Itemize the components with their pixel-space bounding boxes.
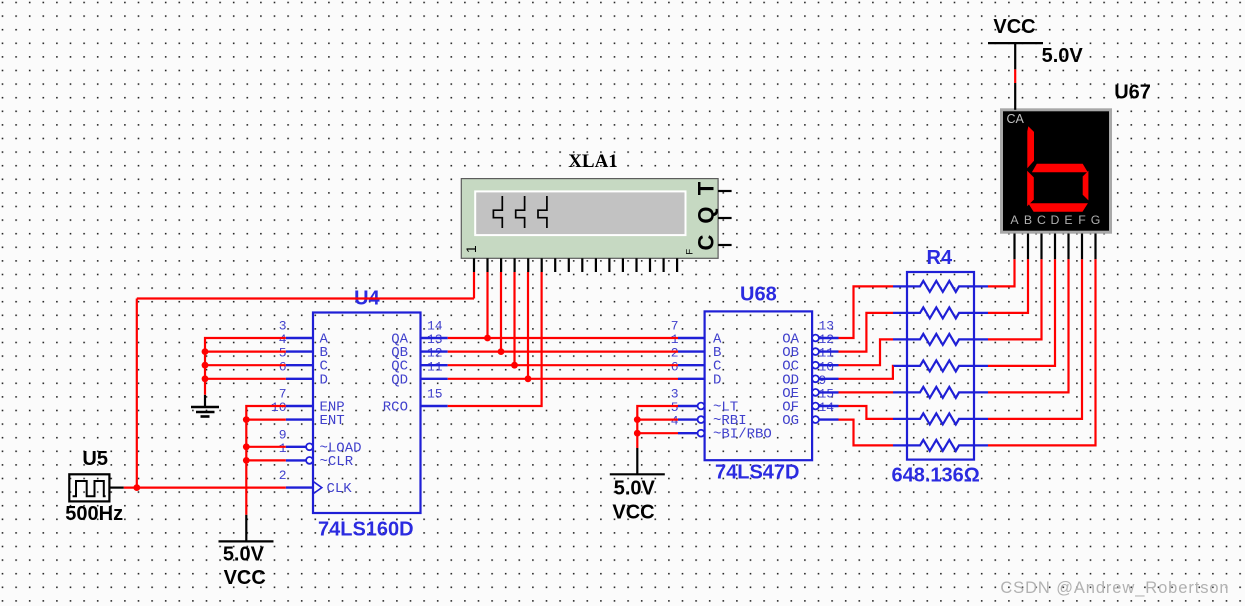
svg-text:1: 1 <box>463 245 479 253</box>
XLA1 bottom pin 11 <box>608 258 610 272</box>
XLA1 right pin T <box>718 190 732 192</box>
wire R4-3 to display C <box>988 259 1042 339</box>
XLA1 clock-qualifier letter T <box>694 181 719 195</box>
VCC 5.0V value (U68) <box>614 477 656 499</box>
wire U68 OA to R4-1 <box>839 286 894 338</box>
XLA1 pin F marker <box>685 249 696 255</box>
svg-text:~BI/RBO: ~BI/RBO <box>713 427 772 443</box>
U67 pin G <box>1094 234 1096 260</box>
wire U4 ENT to VCC bus <box>246 419 285 421</box>
XLA1 waveform glyph 1 <box>493 196 502 228</box>
wire R4-2 to display B <box>988 259 1028 313</box>
XLA1 bottom pin 3 <box>500 258 502 272</box>
U68 pin number 12 <box>819 332 835 347</box>
svg-text:4: 4 <box>671 414 679 429</box>
wire VCC to U67 anode <box>1014 69 1016 83</box>
U4 pin name QB <box>391 345 408 361</box>
svg-text:C: C <box>694 234 719 250</box>
U68 value label 74LS47D <box>715 462 800 484</box>
U68 pin name ~BI/RBO <box>713 427 772 443</box>
U68 pin name A <box>713 332 722 348</box>
U4 pin number 4 <box>279 332 287 347</box>
svg-text:6: 6 <box>671 359 679 374</box>
XLA1 bottom pin 13 <box>635 258 637 272</box>
U4 pin stub ~LOAD <box>286 443 313 450</box>
U67 reference label <box>1114 81 1151 103</box>
U4 pin name QC <box>391 359 408 375</box>
U68 pin number 14 <box>819 400 835 415</box>
svg-text:RCO: RCO <box>383 400 408 416</box>
XLA1 bottom pin 5 <box>527 258 529 272</box>
U4 pin name QA <box>391 332 408 348</box>
XLA1 bottom pin 2 <box>486 258 488 272</box>
wire QB net U4-U68 <box>448 351 678 353</box>
svg-text:74LS160D: 74LS160D <box>318 518 414 540</box>
wire U4 ~LOAD to VCC bus <box>246 446 285 448</box>
U4 pin name QD <box>391 372 408 388</box>
XLA1 bottom pin 1 <box>473 258 475 272</box>
U68 pin stub OE <box>812 389 838 396</box>
svg-text:VCC: VCC <box>993 16 1035 38</box>
XLA1 clock-qualifier letter C <box>694 234 719 250</box>
U4 pin number 14 <box>427 319 443 334</box>
svg-text:CA: CA <box>1007 112 1025 126</box>
svg-text:15: 15 <box>427 387 443 402</box>
U68 pin name OB <box>782 345 799 361</box>
wire U4 C to ground bus <box>205 364 286 366</box>
logic analyzer XLA1 body <box>461 179 718 259</box>
wire U68 OF to R4-6 <box>839 406 894 419</box>
R4 reference label <box>927 247 953 269</box>
wire XLA1 pin1 drop <box>473 272 475 299</box>
U67 segment E (lit) <box>1027 171 1034 206</box>
U5 output junction <box>133 484 140 491</box>
resistor element 5 of R4 <box>893 387 988 398</box>
U4 pin stub QD <box>421 378 448 380</box>
svg-text:ENT: ENT <box>320 413 345 429</box>
U68 pin number 1 <box>671 332 679 347</box>
U68 pin name ~RBI <box>713 413 747 429</box>
junction CLR-VCC <box>243 457 250 464</box>
U67 segment letters A-G <box>1010 213 1100 227</box>
svg-text:648.136Ω: 648.136Ω <box>892 464 980 486</box>
svg-text:14: 14 <box>819 400 835 415</box>
U67 common-anode top pin <box>1014 83 1016 110</box>
wire R4-1 to display A <box>988 259 1015 286</box>
XLA1 label <box>568 151 618 172</box>
U4 pin stub ENP <box>286 405 313 407</box>
resistor element 3 of R4 <box>893 334 988 345</box>
junction QD-XLA1 <box>525 375 532 382</box>
U68 pin number 6 <box>671 359 679 374</box>
junction D-gnd <box>202 375 209 382</box>
wire QA net U4-U68 <box>448 337 678 339</box>
wire U4 D to ground bus <box>205 378 286 380</box>
junction ENT-VCC <box>243 416 250 423</box>
U68 pin name OG <box>782 413 799 429</box>
svg-text:B: B <box>1024 213 1032 227</box>
svg-text:74LS47D: 74LS47D <box>715 462 800 484</box>
svg-text:U5: U5 <box>82 448 108 470</box>
U4 pin name C <box>320 359 328 375</box>
svg-text:CSDN @Andrew_Robertson: CSDN @Andrew_Robertson <box>1000 579 1229 597</box>
U67 segment C (lit) <box>1083 171 1089 201</box>
U4 pin number 9 <box>279 427 287 442</box>
junction B-gnd <box>202 348 209 355</box>
U67 segment G (lit) <box>1032 164 1088 173</box>
U68 pin number 15 <box>819 387 835 402</box>
XLA1 pin 1 marker <box>463 245 479 253</box>
U4 pin number 15 <box>427 387 443 402</box>
wire XLA1 pin4 to QC <box>513 272 515 365</box>
junction BI-VCC <box>634 430 641 437</box>
wire U68 OG to R4-7 <box>839 420 894 446</box>
wire U5 junction up to XLA1 pin1 row <box>136 299 138 488</box>
svg-text:2: 2 <box>279 468 287 483</box>
U68 pin stub OC <box>812 362 838 369</box>
counter U4 body <box>313 313 421 514</box>
resistor element 1 of R4 <box>893 281 988 292</box>
svg-text:E: E <box>1064 213 1072 227</box>
U68 pin number 7 <box>671 319 679 334</box>
svg-text:C: C <box>1037 213 1046 227</box>
U4 pin stub RCO <box>421 405 448 407</box>
wire U4 A to ground bus <box>205 338 286 395</box>
U67 pin B <box>1027 234 1029 260</box>
U68 pin stub A <box>678 337 705 339</box>
svg-text:5.0V: 5.0V <box>1042 45 1084 67</box>
junction C-gnd <box>202 362 209 369</box>
XLA1 bottom pin 12 <box>622 258 624 272</box>
U68 pin stub ~RBI <box>678 416 704 423</box>
junction QB-XLA1 <box>498 348 505 355</box>
U68 pin number 5 <box>671 400 679 415</box>
U4 pin stub B <box>286 350 313 352</box>
U5 value label 500Hz <box>65 503 123 525</box>
svg-text:T: T <box>694 181 719 195</box>
wire XLA1 pin2 to QA <box>486 272 488 338</box>
wire R4-6 to display F <box>988 259 1082 419</box>
VCC 5.0V value (top) <box>1042 45 1084 67</box>
U68 pin number 4 <box>671 414 679 429</box>
svg-text:Q: Q <box>694 206 719 223</box>
U68 pin stub C <box>678 364 705 366</box>
U4 pin stub CLK <box>286 486 313 488</box>
U67 pin E <box>1067 234 1069 260</box>
svg-text:QD: QD <box>391 372 408 388</box>
junction QC-XLA1 <box>511 362 518 369</box>
U4 pin name ENT <box>320 413 345 429</box>
U68 pin number 13 <box>819 319 835 334</box>
svg-text:VCC: VCC <box>224 567 266 589</box>
U67 pin C <box>1040 234 1042 260</box>
junction LOAD-VCC <box>243 443 250 450</box>
wire R4-7 to display G <box>988 259 1096 445</box>
svg-text:5.0V: 5.0V <box>223 544 265 566</box>
wire R4-5 to display E <box>988 259 1069 392</box>
U4 pin number 7 <box>279 387 287 402</box>
U4 pin stub ~CLR <box>286 457 313 464</box>
svg-text:U68: U68 <box>740 284 777 306</box>
wire U68 OB to R4-2 <box>839 313 894 352</box>
U4 pin name ~CLR <box>320 454 354 470</box>
U4 pin number 13 <box>427 332 443 347</box>
XLA1 bottom pin 16 <box>676 258 678 272</box>
U68 pin number 11 <box>819 346 835 361</box>
resistor element 2 of R4 <box>893 307 988 318</box>
XLA1 bottom pin 8 <box>568 258 570 272</box>
svg-text:OG: OG <box>782 413 799 429</box>
VCC label (top) <box>993 16 1035 38</box>
resistor element 6 of R4 <box>893 413 988 424</box>
U4 pin number 6 <box>279 359 287 374</box>
VCC label (U68) <box>612 501 654 523</box>
U4 pin name A <box>320 332 329 348</box>
wire U4 ENP to VCC bus <box>246 406 285 515</box>
wire U68 ~LT to VCC bus <box>637 406 678 448</box>
XLA1 bottom pin 15 <box>662 258 664 272</box>
wire R4-4 to display D <box>988 259 1055 366</box>
svg-text:500Hz: 500Hz <box>65 503 123 525</box>
svg-text:~CLR: ~CLR <box>320 454 354 470</box>
U4 pin stub ENT <box>286 418 313 420</box>
wire XLA1 pin1 horizontal <box>137 297 474 299</box>
svg-text:A: A <box>1010 213 1019 227</box>
XLA1 bottom pin 4 <box>513 258 515 272</box>
U4 pin number 12 <box>427 346 443 361</box>
XLA1 bottom pin 14 <box>649 258 651 272</box>
U4 pin stub A <box>286 337 313 339</box>
ground symbol <box>191 395 219 417</box>
svg-text:F: F <box>1078 213 1086 227</box>
clock source U5 box <box>69 474 109 501</box>
XLA1 bottom pin 7 <box>554 258 556 272</box>
svg-text:D: D <box>1051 213 1060 227</box>
U4 value label 74LS160D <box>318 518 414 540</box>
U4 pin stub QA <box>421 337 448 339</box>
U4 pin stub D <box>286 378 313 380</box>
U4 pin name ~LOAD <box>320 440 362 456</box>
U68 pin stub OB <box>812 348 838 355</box>
wire XLA1 pin6 to RCO <box>448 272 542 406</box>
U68 pin stub B <box>678 350 705 352</box>
XLA1 right pin Q <box>718 217 732 219</box>
wire XLA1 pin5 to QD <box>527 272 529 379</box>
U5 output pin stub <box>109 487 123 489</box>
U68 pin number 2 <box>671 346 679 361</box>
junction QA-XLA1 <box>484 335 491 342</box>
resistor element 7 of R4 <box>893 440 988 451</box>
XLA1 waveform glyph 3 <box>538 196 547 228</box>
resistor element 4 of R4 <box>893 360 988 371</box>
U68 pin name OC <box>782 359 799 375</box>
svg-text:D: D <box>713 372 721 388</box>
wire U68 ~BI/RBO to VCC bus <box>637 432 678 434</box>
U4 pin stub C <box>286 364 313 366</box>
svg-text:U67: U67 <box>1114 81 1151 103</box>
wire XLA1 pin3 to QB <box>500 272 502 352</box>
VCC symbol (below U4) <box>219 515 274 542</box>
XLA1 right pin C <box>718 244 732 246</box>
U4 CLK edge-trigger triangle <box>313 481 322 494</box>
U67 pin F <box>1081 234 1083 260</box>
U4 pin number 11 <box>427 359 443 374</box>
svg-text:R4: R4 <box>927 247 953 269</box>
wire U68 OD to R4-4 <box>839 366 894 379</box>
U4 pin name RCO <box>383 400 408 416</box>
XLA1 clock-qualifier letter Q <box>694 206 719 223</box>
U4 pin name ENP <box>320 400 345 416</box>
U68 pin name OD <box>782 372 799 388</box>
U68 pin number 3 <box>671 387 679 402</box>
XLA1 screen <box>475 191 685 235</box>
XLA1 bottom pin 9 <box>581 258 583 272</box>
U4 pin number 1 <box>279 441 287 456</box>
U5 square-wave glyph <box>73 481 106 496</box>
U4 reference label <box>354 287 380 309</box>
watermark <box>1000 579 1229 597</box>
U68 pin name C <box>713 359 721 375</box>
U67 pin A <box>1013 234 1015 260</box>
VCC 5.0V value (U4) <box>223 544 265 566</box>
U68 pin name D <box>713 372 721 388</box>
U4 pin name CLK <box>327 481 353 497</box>
resistor pack R4 body <box>907 272 974 460</box>
svg-text:6: 6 <box>279 359 287 374</box>
wire QD net U4-U68 <box>448 378 678 380</box>
VCC label (U4) <box>224 567 266 589</box>
U68 pin name ~LT <box>713 400 738 416</box>
wire U68 OE to R4-5 <box>839 391 894 393</box>
R4 value label 648.14 ohm <box>892 464 980 486</box>
U68 pin name OE <box>782 386 799 402</box>
U4 pin number 5 <box>279 346 287 361</box>
wire U4 B to ground bus <box>205 351 286 353</box>
U68 pin name OA <box>782 332 799 348</box>
junction RBI-VCC <box>634 416 641 423</box>
svg-text:VCC: VCC <box>612 501 654 523</box>
svg-text:G: G <box>1091 213 1101 227</box>
U68 pin stub ~LT <box>678 403 704 410</box>
U4 pin stub QB <box>421 350 448 352</box>
U67 CA label <box>1007 112 1025 126</box>
wire QC net U4-U68 <box>448 364 678 366</box>
wire U68 OC to R4-3 <box>839 339 894 365</box>
U68 pin stub OF <box>812 403 838 410</box>
U67 pin D <box>1054 234 1056 260</box>
U68 pin number 9 <box>819 373 827 388</box>
U68 pin stub ~BI/RBO <box>678 430 704 437</box>
svg-text:11: 11 <box>427 359 443 374</box>
U4 pin number 10 <box>271 400 287 415</box>
svg-text:CLK: CLK <box>327 481 353 497</box>
seven-segment display U67 body <box>1002 110 1111 232</box>
wire U4 ~CLR to VCC bus <box>246 459 285 461</box>
U4 pin name D <box>320 372 328 388</box>
U68 pin stub OG <box>812 416 838 423</box>
U4 pin number 3 <box>279 319 287 334</box>
U4 pin name B <box>320 345 328 361</box>
wire U5 output to U4 CLK <box>124 487 286 489</box>
VCC symbol (top, for U67) <box>988 43 1043 69</box>
svg-text:5.0V: 5.0V <box>614 477 656 499</box>
svg-text:1: 1 <box>279 441 287 456</box>
U68 pin name B <box>713 345 721 361</box>
U68 pin stub D <box>678 378 705 380</box>
svg-text:D: D <box>320 372 328 388</box>
U67 segment F (lit) <box>1027 126 1034 168</box>
svg-text:XLA1: XLA1 <box>568 151 618 172</box>
U68 reference label <box>740 284 777 306</box>
XLA1 bottom pin 10 <box>595 258 597 272</box>
XLA1 waveform glyph 2 <box>516 196 525 228</box>
XLA1 bottom pin 6 <box>541 258 543 272</box>
U4 pin number 2 <box>279 468 287 483</box>
U68 pin number 10 <box>819 359 835 374</box>
svg-text:10: 10 <box>271 400 287 415</box>
U68 pin name OF <box>782 400 799 416</box>
wire U68 ~RBI to VCC bus <box>637 419 678 421</box>
U4 pin stub QC <box>421 364 448 366</box>
U68 pin stub OD <box>812 375 838 382</box>
U67 segment D (lit) <box>1028 203 1088 212</box>
decoder U68 body <box>705 311 813 460</box>
U5 reference label <box>82 448 108 470</box>
VCC symbol (below U68) <box>610 448 665 474</box>
U68 pin stub OA <box>812 335 838 342</box>
